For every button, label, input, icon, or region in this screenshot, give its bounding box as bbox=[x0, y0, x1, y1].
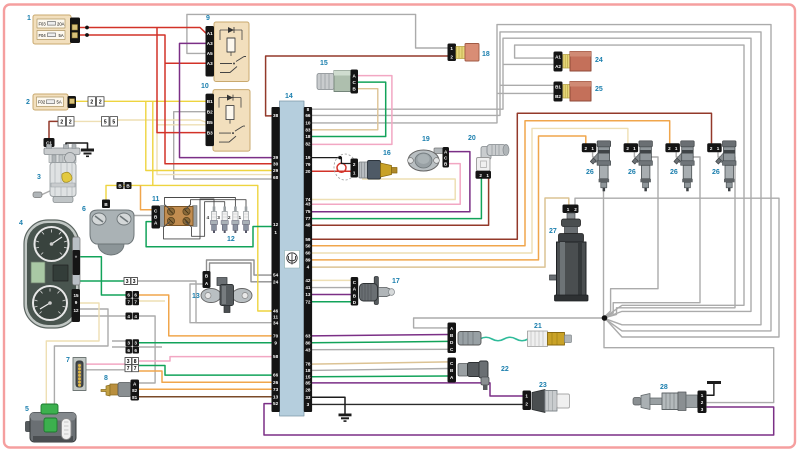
vehicle speed sensor 22 bbox=[448, 358, 490, 391]
crankshaft sensor 13 bbox=[201, 271, 252, 313]
svg-text:1: 1 bbox=[701, 393, 704, 398]
resistor 18 bbox=[448, 44, 480, 62]
svg-text:10: 10 bbox=[305, 121, 311, 126]
svg-text:4: 4 bbox=[207, 215, 210, 221]
svg-text:46: 46 bbox=[273, 309, 279, 314]
svg-text:5: 5 bbox=[25, 406, 29, 413]
wire green ECU pin72 to comp17-D bbox=[311, 301, 352, 303]
ignition coil module 25 bbox=[554, 82, 592, 102]
wire purple relay9-A3 to ECU pin39 bbox=[180, 43, 273, 157]
wire red fuse1 to ECU pin30 bbox=[80, 35, 272, 164]
svg-text:58: 58 bbox=[273, 354, 279, 359]
diagnostic connector 7 bbox=[73, 358, 86, 391]
wire darkred fuelpump C1 to conn2|2b bbox=[49, 121, 59, 139]
wire gray crank13-A shield to ECU pin34 bbox=[190, 284, 220, 323]
svg-text:27: 27 bbox=[549, 228, 557, 235]
svg-text:2: 2 bbox=[69, 120, 72, 126]
ignition coil 27 bbox=[550, 205, 589, 302]
svg-text:77: 77 bbox=[305, 216, 311, 221]
wire purple ECU pin85 to comp23 pin1 bbox=[311, 383, 524, 396]
svg-text:6: 6 bbox=[134, 348, 137, 353]
svg-text:25: 25 bbox=[595, 86, 603, 93]
svg-text:22: 22 bbox=[501, 366, 509, 373]
svg-text:B1: B1 bbox=[207, 99, 213, 104]
svg-text:70: 70 bbox=[273, 334, 279, 339]
wire darkred ECU pin48 to comp20 pin1 bbox=[311, 179, 489, 226]
svg-text:9: 9 bbox=[274, 340, 277, 345]
wire gray relay9-A5 to comp18 pin1 bbox=[187, 14, 449, 53]
svg-text:16: 16 bbox=[383, 150, 391, 157]
svg-text:43: 43 bbox=[305, 347, 311, 352]
wire gray star down to comp28 pin2 bbox=[604, 321, 774, 403]
svg-text:10: 10 bbox=[201, 83, 209, 90]
wire gray ECU pin10 via module25-B2 top loop to star bbox=[311, 25, 771, 331]
wire pink conn7 to conn3|8 bbox=[84, 363, 125, 365]
svg-text:2: 2 bbox=[450, 55, 453, 60]
svg-text:5: 5 bbox=[112, 120, 115, 126]
wire red fuse1 to relay9-A1 bbox=[80, 28, 206, 34]
relay 10 bbox=[206, 90, 251, 152]
svg-text:19: 19 bbox=[305, 155, 311, 160]
svg-text:15: 15 bbox=[73, 293, 79, 298]
wire orange conn7|7 to ECU pin26 bbox=[139, 371, 272, 382]
wire yellow branch to connB bbox=[106, 185, 153, 204]
svg-text:18: 18 bbox=[482, 51, 490, 58]
svg-text:82: 82 bbox=[305, 142, 311, 147]
svg-text:59: 59 bbox=[305, 237, 311, 242]
wire gray ECU pin41 to comp17-A bbox=[311, 287, 352, 289]
svg-text:29: 29 bbox=[273, 168, 279, 173]
wire darkred ECU pin59 to injector4 bbox=[311, 113, 712, 239]
svg-text:17: 17 bbox=[392, 278, 400, 285]
svg-text:13: 13 bbox=[305, 292, 311, 297]
wire gray module24-A2 stub bbox=[503, 63, 555, 65]
svg-text:34: 34 bbox=[273, 320, 279, 325]
svg-text:6: 6 bbox=[134, 292, 137, 297]
svg-text:4: 4 bbox=[307, 265, 310, 270]
high tension leads 11 to 12 bbox=[164, 198, 247, 239]
wire cream conn7|7 row stub bbox=[139, 300, 165, 302]
svg-text:4: 4 bbox=[134, 314, 137, 319]
wire black fuelpump ground bbox=[66, 143, 88, 149]
svg-text:66: 66 bbox=[273, 373, 279, 378]
svg-text:80: 80 bbox=[305, 340, 311, 345]
svg-text:28: 28 bbox=[305, 387, 311, 392]
ignition coil module 24 bbox=[554, 52, 592, 72]
spark plugs 12 bbox=[207, 207, 250, 234]
svg-text:78: 78 bbox=[305, 362, 311, 367]
svg-text:1: 1 bbox=[450, 46, 453, 51]
svg-text:20A: 20A bbox=[57, 22, 65, 27]
svg-text:81: 81 bbox=[132, 395, 138, 400]
wire orange comp8-82 to ECU pin73 bbox=[139, 388, 272, 390]
throttle position sensor 19 bbox=[408, 147, 449, 171]
wire green comp15-C to ECU pin18 bbox=[311, 82, 386, 136]
ground symbol under ECU bbox=[339, 414, 352, 422]
svg-text:2: 2 bbox=[710, 146, 713, 151]
svg-text:41: 41 bbox=[305, 285, 311, 290]
connector 5|5 bbox=[102, 117, 118, 127]
svg-text:13: 13 bbox=[273, 394, 279, 399]
fuel rail / plunger 28 bbox=[633, 391, 707, 414]
wire red ECU pin20 to comp16 pin1 bbox=[311, 171, 351, 172]
ground symbol at comp28 bbox=[707, 381, 721, 384]
svg-text:15: 15 bbox=[320, 60, 328, 67]
junction dot fuse1 b bbox=[85, 33, 89, 37]
wire pink comp15-A to ECU pin82 bbox=[311, 76, 392, 145]
wire brown comp18 pin2 to ECU pin38 bbox=[266, 56, 449, 116]
svg-text:B2: B2 bbox=[207, 110, 213, 115]
svg-text:8: 8 bbox=[134, 359, 137, 365]
svg-text:1: 1 bbox=[27, 15, 31, 22]
wire tan ECU pin78 to comp22-C bbox=[311, 362, 456, 364]
svg-text:42: 42 bbox=[305, 278, 311, 283]
svg-text:9: 9 bbox=[206, 15, 210, 22]
wire gray module25-B2 stub bbox=[497, 92, 555, 94]
wire pink ECU pin43 to comp19-B bbox=[311, 164, 460, 205]
svg-text:60: 60 bbox=[305, 251, 311, 256]
svg-text:7: 7 bbox=[134, 366, 137, 372]
svg-text:26: 26 bbox=[670, 169, 678, 176]
svg-text:11: 11 bbox=[273, 315, 278, 320]
wire yellow branch to ECU pin29 bbox=[146, 101, 272, 170]
wire gray star left to comp21-A bbox=[414, 318, 604, 328]
svg-text:3: 3 bbox=[217, 215, 220, 221]
wire gray conn4|4 to comp8-A loop bbox=[139, 316, 155, 383]
wire black ECU pin33 to ground bbox=[311, 397, 345, 414]
wire red branch to relay9-A3b bbox=[165, 62, 206, 64]
wire gray cluster to comp5 bbox=[54, 309, 108, 404]
svg-text:2: 2 bbox=[585, 146, 588, 151]
connector 3|3 white bbox=[124, 278, 138, 285]
svg-text:79: 79 bbox=[305, 162, 311, 167]
wire purple ECU pin63 to comp21-B bbox=[311, 335, 448, 336]
svg-text:3: 3 bbox=[133, 279, 136, 285]
svg-text:7: 7 bbox=[134, 300, 137, 305]
svg-text:4: 4 bbox=[19, 220, 23, 227]
svg-text:B5: B5 bbox=[207, 120, 213, 125]
svg-text:3: 3 bbox=[127, 359, 130, 365]
wire yellow fuse2 to relay10-B1 bbox=[76, 100, 206, 102]
svg-text:3: 3 bbox=[126, 279, 129, 285]
svg-text:2: 2 bbox=[90, 100, 93, 106]
svg-text:50: 50 bbox=[305, 243, 311, 248]
svg-text:1: 1 bbox=[353, 171, 356, 176]
svg-text:1: 1 bbox=[525, 394, 528, 399]
wire gray conn7 to conn7|7 bbox=[84, 369, 125, 371]
wire cream cluster to comp5 cap bbox=[46, 303, 99, 404]
coolant temp sensor 8 bbox=[101, 380, 139, 401]
svg-text:2: 2 bbox=[60, 120, 63, 126]
svg-text:12: 12 bbox=[227, 236, 235, 243]
svg-text:2: 2 bbox=[26, 99, 30, 106]
svg-text:24: 24 bbox=[595, 57, 603, 64]
svg-text:26: 26 bbox=[712, 169, 720, 176]
wire cream ECU pin42 to comp17-C bbox=[311, 279, 352, 281]
svg-text:12: 12 bbox=[273, 222, 279, 227]
svg-text:B2: B2 bbox=[555, 94, 561, 99]
svg-text:13: 13 bbox=[192, 293, 200, 300]
wire gray pump sender stub bbox=[40, 190, 52, 196]
wire gray relay10-B2 to ECU pin68 bbox=[174, 112, 272, 179]
wire black comp28 pin1 to ground bbox=[707, 384, 714, 395]
ground symbol near fuel pump bbox=[81, 149, 94, 158]
instrument cluster 4 bbox=[24, 220, 80, 328]
svg-text:21: 21 bbox=[534, 323, 542, 330]
wire orange to comp11-C bbox=[141, 185, 157, 209]
wire gray ECU pin66 via module25-B1 top loop to star bbox=[311, 32, 761, 325]
wire purple ECU pin13R to comp17-B bbox=[311, 294, 352, 296]
wire gray conn3|3b left stubs bbox=[112, 341, 126, 347]
svg-text:B3: B3 bbox=[207, 130, 213, 135]
svg-text:A1: A1 bbox=[207, 31, 213, 36]
wire orange ECU pin50 to injector3 bbox=[311, 121, 670, 246]
throttle body 6 bbox=[90, 210, 134, 255]
svg-text:F04: F04 bbox=[39, 33, 47, 38]
svg-text:7: 7 bbox=[127, 300, 130, 305]
pressure sensor 15 bbox=[317, 70, 358, 94]
svg-text:2: 2 bbox=[626, 146, 629, 151]
svg-text:15: 15 bbox=[305, 374, 311, 379]
svg-text:11: 11 bbox=[152, 196, 160, 203]
wire black ECU pin3 to comp23 pin2 bbox=[311, 403, 524, 405]
svg-text:A5: A5 bbox=[207, 51, 213, 56]
svg-text:30: 30 bbox=[273, 161, 279, 166]
wire green ECU pin77 to comp20 pin2 bbox=[311, 179, 481, 219]
svg-text:F02: F02 bbox=[38, 100, 46, 105]
svg-text:A3: A3 bbox=[207, 41, 213, 46]
svg-text:48: 48 bbox=[305, 223, 311, 228]
fuse box 1 bbox=[33, 15, 80, 44]
svg-text:3: 3 bbox=[37, 174, 41, 181]
junction dot comp16 bbox=[338, 156, 341, 159]
wire cream conn2|2b to conn5|5 bbox=[73, 120, 103, 122]
purge valve 5 bbox=[25, 404, 76, 442]
svg-text:19: 19 bbox=[422, 136, 430, 143]
wire pink conn3|8 to ECU pin58 bbox=[139, 357, 272, 361]
connector 2|2 upper bbox=[88, 97, 104, 107]
wire yellow branch down to comp12 frame to ECU pin46 bbox=[153, 101, 272, 311]
connector 3|8 7|7 white lower bbox=[125, 358, 139, 373]
wire brown comp8-81 to ECU pin13 bbox=[139, 396, 272, 398]
svg-text:24: 24 bbox=[273, 279, 279, 284]
junction dot fuse1 a bbox=[85, 26, 89, 30]
svg-text:43: 43 bbox=[305, 202, 311, 207]
svg-text:85: 85 bbox=[305, 381, 311, 386]
svg-text:1: 1 bbox=[486, 173, 489, 178]
svg-text:23: 23 bbox=[539, 382, 547, 389]
svg-text:2: 2 bbox=[574, 207, 577, 212]
wire cream ECU pin74 route bbox=[311, 179, 455, 200]
star ground junction bbox=[602, 315, 608, 321]
fuel pump assembly 3 bbox=[33, 145, 80, 203]
svg-text:1: 1 bbox=[633, 146, 636, 151]
svg-text:9: 9 bbox=[75, 300, 78, 305]
svg-text:68: 68 bbox=[273, 175, 279, 180]
intake air temp sensor 20 bbox=[476, 145, 510, 179]
svg-text:26: 26 bbox=[628, 169, 636, 176]
wire gray comp11-B to throttle 6 bbox=[130, 215, 156, 217]
svg-text:A2: A2 bbox=[555, 64, 561, 69]
svg-text:3: 3 bbox=[701, 407, 704, 412]
svg-text:A3: A3 bbox=[207, 61, 213, 66]
svg-text:6: 6 bbox=[127, 348, 130, 353]
wire gray conn4|4 left bbox=[80, 315, 126, 317]
wire green ECU pin80 to comp21-D bbox=[311, 341, 448, 342]
svg-text:7: 7 bbox=[66, 357, 70, 364]
wire teal comp21 to o2 sensor bbox=[480, 337, 528, 341]
ECU 14 bbox=[272, 101, 313, 416]
svg-text:2: 2 bbox=[525, 402, 528, 407]
wire orange conn6|6 to ECU pin70 bbox=[139, 295, 272, 336]
svg-text:3: 3 bbox=[134, 341, 137, 346]
svg-text:1: 1 bbox=[567, 207, 570, 212]
svg-text:6: 6 bbox=[127, 292, 130, 297]
svg-text:B1: B1 bbox=[555, 85, 561, 90]
svg-text:89: 89 bbox=[305, 258, 311, 263]
connector 2|2 lower bbox=[58, 117, 74, 127]
svg-text:82: 82 bbox=[132, 388, 138, 393]
svg-text:A1: A1 bbox=[555, 55, 561, 60]
svg-text:2: 2 bbox=[668, 146, 671, 151]
connector 4|4 black bbox=[126, 313, 140, 320]
svg-text:63: 63 bbox=[305, 334, 311, 339]
wire green ECU pin12 loop to comp11-A bbox=[146, 222, 272, 247]
svg-text:1: 1 bbox=[675, 146, 678, 151]
idle air control valve 17 bbox=[351, 277, 395, 306]
svg-text:20: 20 bbox=[305, 169, 311, 174]
wire gray injector4 ground to star bbox=[606, 152, 735, 317]
wire green conn3|3b to ECU pin9 bbox=[139, 342, 272, 344]
wire tan ECU pin4 to coil27 pin1 bbox=[311, 198, 569, 267]
svg-text:26: 26 bbox=[586, 169, 594, 176]
ignition module 11 bbox=[152, 206, 198, 229]
wire gray module25-B1 stub bbox=[500, 84, 555, 86]
wire green ECU pin15 to comp22-A bbox=[311, 375, 448, 378]
svg-text:2: 2 bbox=[353, 162, 356, 167]
svg-text:18: 18 bbox=[305, 134, 311, 139]
wire green cluster to conn3|3 bbox=[80, 280, 124, 282]
temp sensor 16 bbox=[351, 159, 398, 180]
svg-text:1: 1 bbox=[274, 230, 277, 235]
wire red branch to relay10-B3 bbox=[157, 28, 206, 133]
connector B|B black bbox=[117, 182, 132, 189]
svg-text:1: 1 bbox=[591, 146, 594, 151]
svg-text:38: 38 bbox=[273, 113, 279, 118]
oxygen sensor 21 bbox=[448, 323, 572, 354]
connector 3|3 6|6 black lower bbox=[126, 339, 140, 353]
svg-text:66: 66 bbox=[305, 113, 311, 118]
wire darkgray crank13 pair outer to ECU54 bbox=[207, 260, 273, 276]
connector B single black bbox=[102, 200, 110, 209]
wire darkgray crank13 pair inner to ECU24 bbox=[210, 263, 273, 282]
svg-text:3: 3 bbox=[307, 402, 310, 407]
svg-text:F03: F03 bbox=[39, 22, 47, 27]
fuel injector 26 (1) bbox=[582, 141, 611, 192]
fuel injector 26 (3) bbox=[665, 141, 694, 192]
svg-text:5A: 5A bbox=[57, 100, 62, 105]
svg-text:12: 12 bbox=[73, 308, 79, 313]
svg-text:28: 28 bbox=[660, 384, 668, 391]
wire gray conn3|3 to ECU pin34 bbox=[138, 281, 273, 323]
svg-text:73: 73 bbox=[273, 387, 279, 392]
svg-text:14: 14 bbox=[285, 93, 293, 100]
wire gray conn3|3b row2 stub bbox=[139, 346, 162, 348]
fuse box 2 bbox=[33, 94, 76, 110]
svg-text:75: 75 bbox=[305, 209, 311, 214]
svg-text:33: 33 bbox=[305, 395, 311, 400]
oil pressure sensor 23 bbox=[523, 390, 570, 413]
wire cream ECU pin60 to injector2 bbox=[311, 128, 628, 253]
wire gray ECU pin43b to comp21-C bbox=[311, 348, 448, 350]
dashed ellipse annotation at comp16 bbox=[334, 154, 356, 180]
svg-text:6: 6 bbox=[82, 206, 86, 213]
connector 6|6 7|7 black bbox=[126, 291, 140, 305]
svg-text:5A: 5A bbox=[59, 33, 64, 38]
svg-text:1: 1 bbox=[717, 146, 720, 151]
wire orange ECU pin89 to injector1 bbox=[311, 136, 586, 260]
wire gray ECU pin8 via module24-A2 top loop to star bbox=[311, 38, 751, 317]
svg-text:2: 2 bbox=[479, 173, 482, 178]
wire gray module24-A1 top loop to star bbox=[515, 45, 744, 317]
svg-text:2: 2 bbox=[228, 215, 231, 221]
wire cream fuse2row2 to relay10-B5 loop bbox=[117, 120, 272, 175]
connector C1 fuel pump bbox=[44, 138, 55, 147]
wire black ECU pin19 to comp16 pin2 bbox=[311, 158, 351, 164]
svg-text:7: 7 bbox=[127, 366, 130, 372]
svg-text:2: 2 bbox=[701, 400, 704, 405]
wire green conn8 to ECU pin66 bbox=[139, 366, 272, 376]
svg-text:83: 83 bbox=[305, 127, 311, 132]
wire purple ECU pin75 to comp19-A bbox=[311, 152, 470, 212]
svg-text:3: 3 bbox=[127, 341, 130, 346]
wire green cluster to conn6|6 bbox=[78, 257, 126, 295]
svg-text:5: 5 bbox=[104, 120, 107, 126]
svg-text:8: 8 bbox=[307, 107, 310, 112]
wire gray ECU pin18R to comp22-B bbox=[311, 369, 448, 371]
svg-text:39: 39 bbox=[273, 155, 279, 160]
wire gray star to coil27 pin2 bbox=[575, 198, 779, 337]
svg-text:4: 4 bbox=[127, 314, 130, 319]
svg-text:1: 1 bbox=[239, 215, 242, 221]
svg-text:20: 20 bbox=[468, 135, 476, 142]
svg-text:52: 52 bbox=[273, 401, 279, 406]
relay 9 bbox=[206, 22, 250, 82]
fuel injector 26 (4) bbox=[707, 141, 736, 192]
svg-text:8: 8 bbox=[104, 375, 108, 382]
svg-text:18: 18 bbox=[305, 368, 311, 373]
wire gray injector2 ground to star bbox=[605, 152, 658, 316]
wire purple ECU pin52 to comp28 pin3 bbox=[264, 404, 774, 435]
svg-text:54: 54 bbox=[273, 273, 279, 278]
svg-text:26: 26 bbox=[273, 380, 279, 385]
wire gray injector3 ground to star bbox=[605, 152, 700, 317]
fuel injector 26 (2) bbox=[624, 141, 653, 192]
red loop at comp16 bbox=[337, 163, 346, 172]
wire tan comp15-B to ECU pin83 bbox=[311, 89, 378, 130]
svg-text:72: 72 bbox=[305, 299, 311, 304]
svg-text:2: 2 bbox=[99, 100, 102, 106]
wire gray injector1 ground to star bbox=[593, 152, 604, 316]
